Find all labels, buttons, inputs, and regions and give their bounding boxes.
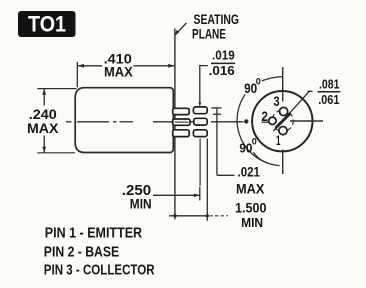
- svg-text:1.500: 1.500: [235, 201, 267, 216]
- svg-text:.081: .081: [319, 76, 339, 91]
- svg-text:MAX: MAX: [27, 120, 59, 136]
- svg-text:90: 90: [239, 141, 252, 156]
- svg-text:3: 3: [274, 93, 280, 109]
- svg-text:PIN 2 - BASE: PIN 2 - BASE: [44, 243, 119, 260]
- svg-text:0: 0: [252, 136, 257, 146]
- svg-text:2: 2: [261, 108, 268, 124]
- svg-text:PLANE: PLANE: [192, 26, 226, 42]
- svg-text:0: 0: [256, 76, 261, 86]
- svg-text:PIN 1 - EMITTER: PIN 1 - EMITTER: [45, 225, 142, 242]
- svg-text:.016: .016: [209, 63, 235, 78]
- svg-text:1: 1: [276, 132, 281, 148]
- svg-text:TO1: TO1: [28, 11, 66, 36]
- svg-text:.019: .019: [212, 48, 235, 63]
- svg-text:PIN 3 - COLLECTOR: PIN 3 - COLLECTOR: [44, 262, 155, 279]
- svg-text:MAX: MAX: [236, 181, 265, 197]
- svg-text:.061: .061: [318, 92, 339, 107]
- svg-text:MAX: MAX: [104, 64, 133, 80]
- svg-text:MIN: MIN: [241, 215, 263, 230]
- svg-text:.021: .021: [238, 164, 261, 180]
- svg-text:SEATING: SEATING: [194, 11, 240, 27]
- svg-text:MIN: MIN: [130, 196, 152, 212]
